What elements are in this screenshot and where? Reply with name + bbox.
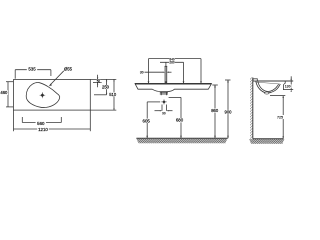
svg-text:50: 50 <box>97 79 101 83</box>
svg-text:605: 605 <box>143 118 151 123</box>
svg-text:560: 560 <box>37 121 45 126</box>
svg-text:900: 900 <box>225 110 233 115</box>
svg-text:280: 280 <box>169 61 175 65</box>
svg-text:1210: 1210 <box>38 127 48 132</box>
svg-text:Ø55: Ø55 <box>64 66 73 71</box>
svg-text:250: 250 <box>102 85 110 90</box>
svg-text:130: 130 <box>285 85 291 89</box>
svg-text:460: 460 <box>0 90 8 95</box>
svg-text:535: 535 <box>28 66 36 71</box>
svg-text:680: 680 <box>176 118 184 123</box>
svg-text:510: 510 <box>109 92 117 97</box>
svg-text:860: 860 <box>211 108 219 113</box>
svg-text:90: 90 <box>162 111 166 115</box>
svg-text:725: 725 <box>277 115 283 119</box>
svg-text:30: 30 <box>140 71 144 75</box>
